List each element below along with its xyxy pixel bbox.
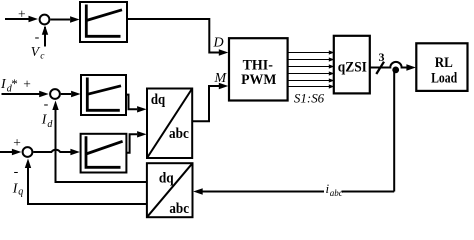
svg-text:M: M — [214, 71, 228, 86]
svg-text:-: - — [14, 165, 19, 180]
svg-text:abc: abc — [169, 201, 189, 217]
svg-text:3: 3 — [379, 50, 385, 64]
svg-text:qZSI: qZSI — [338, 59, 367, 75]
svg-text:D: D — [213, 36, 224, 51]
svg-text:abc: abc — [330, 188, 343, 198]
svg-text:dq: dq — [159, 170, 174, 186]
svg-text:PWM: PWM — [241, 72, 277, 88]
svg-text:abc: abc — [169, 126, 189, 142]
svg-text:-: - — [35, 30, 40, 45]
svg-text:+: + — [23, 76, 31, 91]
svg-text:-: - — [44, 97, 49, 112]
svg-text:Load: Load — [431, 71, 458, 87]
svg-text:RL: RL — [435, 55, 453, 71]
svg-text:+: + — [18, 6, 26, 21]
svg-text:S1:S6: S1:S6 — [294, 90, 325, 105]
svg-text:q: q — [18, 186, 23, 197]
svg-text:dq: dq — [151, 92, 166, 108]
svg-text:+: + — [13, 135, 21, 150]
svg-text:*: * — [11, 76, 17, 91]
